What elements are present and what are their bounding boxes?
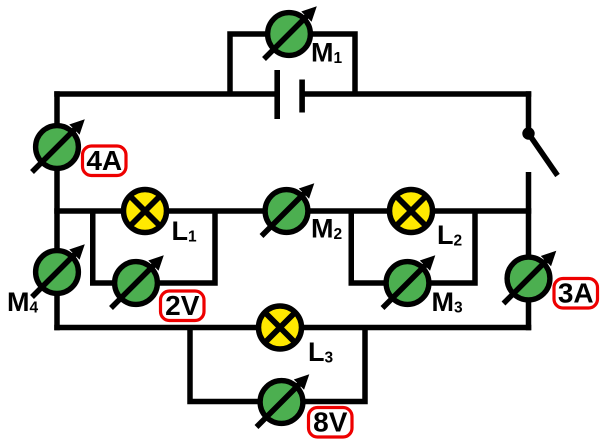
svg-text:3A: 3A (558, 278, 594, 309)
wire sub-branch 2 loop (under L2) (349, 211, 478, 286)
wire right vertical upper (to switch) (526, 91, 532, 133)
wire middle horizontal (54, 208, 531, 214)
lamp L3 (259, 306, 302, 349)
meter V2 (8V) (257, 374, 310, 427)
meter M2 (262, 183, 315, 236)
svg-text:8V: 8V (313, 407, 348, 438)
wire left vertical (54, 91, 60, 330)
label 2V (161, 290, 205, 321)
meter M4 (32, 244, 85, 297)
switch S1 (522, 127, 557, 175)
battery B1 (274, 70, 305, 119)
meter A2 (3A) (504, 251, 557, 304)
wire bottom (54, 325, 531, 331)
label 3A (554, 278, 598, 309)
svg-text:4A: 4A (86, 145, 122, 176)
wire right vertical lower (from switch) (526, 172, 532, 330)
meter M1 (264, 6, 317, 59)
wire meter M1 parallel loop (227, 31, 358, 94)
wire 8V loop (under L3) (187, 328, 368, 405)
label 8V (309, 407, 353, 438)
meter A1 (4A) (32, 119, 85, 172)
lamp L2 (390, 190, 433, 233)
meter M3 (383, 255, 436, 308)
label 4A (83, 145, 127, 176)
svg-text:2V: 2V (165, 290, 200, 321)
wire top right segment (302, 91, 531, 97)
wire top left segment (54, 91, 277, 97)
lamp L1 (124, 190, 167, 233)
wire sub-branch 1 loop (under L1) (90, 211, 218, 286)
meter V1 (2V) (111, 255, 164, 308)
